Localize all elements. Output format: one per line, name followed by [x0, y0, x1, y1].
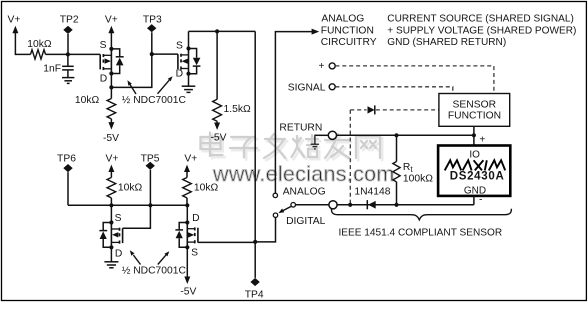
junction TP5 rail: [148, 203, 152, 207]
junction Rt bottom: [394, 203, 398, 207]
terminal circle signal: [329, 84, 335, 90]
terminal circle return: [328, 131, 336, 139]
wire Q1b drain to ground: [188, 74, 190, 86]
wire digital pole to TP4 node: [255, 217, 275, 242]
wire TP3 down: [151, 32, 153, 54]
brace IEEE sensor: [331, 209, 511, 220]
svg-text:V+: V+: [184, 154, 197, 165]
svg-text:+ SUPPLY VOLTAGE (SHARED POWER: + SUPPLY VOLTAGE (SHARED POWER): [387, 25, 576, 36]
box sensor function: [439, 94, 510, 127]
svg-text:1N4148: 1N4148: [354, 187, 390, 198]
watermark chinese characters: [201, 133, 381, 159]
svg-text:TP2: TP2: [60, 15, 79, 26]
svg-text:10kΩ: 10kΩ: [194, 182, 219, 193]
terminal analog pole: [273, 193, 277, 197]
wire row2 rail: [68, 204, 187, 206]
wire node A to Q1a gate: [68, 53, 100, 55]
svg-text:S: S: [100, 40, 107, 51]
ground return stub: [311, 135, 319, 149]
svg-text:10kΩ: 10kΩ: [75, 95, 100, 106]
svg-text:IO: IO: [469, 149, 480, 160]
switch SW1 lever: [278, 203, 295, 214]
svg-text:CIRCUITRY: CIRCUITRY: [321, 37, 377, 48]
junction R5 rail: [185, 203, 189, 207]
wire top rail: [189, 30, 256, 32]
svg-text:GND (SHARED RETURN): GND (SHARED RETURN): [387, 37, 506, 48]
svg-text:SENSOR: SENSOR: [453, 100, 497, 111]
V+ supply arrow Q1a: [108, 26, 114, 49]
svg-text:-5V: -5V: [103, 133, 119, 144]
svg-text:RETURN: RETURN: [279, 122, 322, 133]
terminal circle plus: [329, 63, 335, 69]
terminal digital pole: [273, 213, 277, 217]
wire node B to TP3 node: [111, 54, 151, 87]
svg-text:½ NDC7001C: ½ NDC7001C: [122, 95, 187, 106]
arrow to Q2a: [130, 250, 141, 264]
diode D2 1N4148: [367, 200, 375, 209]
test point TP6 diamond: [63, 164, 72, 172]
svg-text:S: S: [191, 247, 198, 258]
resistor R4 10k: [107, 178, 116, 206]
svg-text:FUNCTION: FUNCTION: [321, 25, 374, 36]
test point TP2 diamond: [63, 26, 72, 34]
svg-text:ANALOG: ANALOG: [321, 14, 364, 25]
svg-text:-5V: -5V: [210, 133, 226, 144]
wire return stub: [314, 134, 328, 136]
svg-text:+: +: [479, 135, 485, 146]
svg-text:CURRENT SOURCE (SHARED SIGNAL): CURRENT SOURCE (SHARED SIGNAL): [387, 14, 574, 25]
svg-text:-5V: -5V: [180, 286, 196, 297]
label sensor function: [448, 100, 501, 122]
svg-text:D: D: [100, 74, 107, 85]
wire rail to Q2b drain: [186, 205, 188, 222]
junction dashed meet: [348, 203, 352, 207]
node ANALOG FUNCTION CIRCUITRY text: [321, 14, 377, 48]
junction R3 top: [215, 29, 219, 33]
test point TP4 diamond: [250, 278, 259, 286]
junction TP4 node: [253, 240, 257, 244]
dashed wire diode branch vertical: [349, 110, 351, 205]
wire Q2a gate to TP5: [123, 205, 151, 228]
wire main bus to TP4: [254, 31, 256, 278]
dashed wire signal to sensor function: [335, 87, 452, 93]
diode D1 on dashed line: [368, 105, 375, 114]
svg-text:-: -: [479, 194, 483, 206]
svg-text:TP3: TP3: [143, 15, 162, 26]
wire Q2a drain to ground: [110, 247, 112, 261]
V+ supply arrow R5: [184, 165, 190, 178]
test point TP5 diamond: [146, 162, 155, 170]
wire TP6 to rail: [67, 172, 69, 205]
junction node B: [109, 85, 113, 89]
ground below Q1b: [182, 86, 196, 92]
svg-text:SIGNAL: SIGNAL: [288, 82, 326, 93]
svg-text:S: S: [176, 40, 183, 51]
arrow to Q2b: [158, 251, 170, 264]
ground below C1: [62, 78, 74, 84]
wire lever to common: [296, 204, 329, 206]
svg-text:1.5kΩ: 1.5kΩ: [224, 104, 251, 115]
svg-text:IEEE 1451.4 COMPLIANT SENSOR: IEEE 1451.4 COMPLIANT SENSOR: [338, 228, 502, 239]
wire rail to Q2a source: [110, 205, 112, 222]
wire Q1a drain to node B: [110, 74, 112, 88]
dashed wire plus to sensor function: [335, 66, 494, 93]
svg-text:V+: V+: [8, 15, 21, 26]
logo MAXIM: [445, 160, 506, 170]
svg-text:10kΩ: 10kΩ: [118, 182, 143, 193]
svg-text:DIGITAL: DIGITAL: [286, 216, 326, 227]
svg-text:ANALOG: ANALOG: [283, 187, 326, 198]
svg-text:10kΩ: 10kΩ: [27, 39, 52, 50]
svg-text:D: D: [115, 248, 122, 259]
resistor R2 10k: [107, 87, 116, 122]
-5V arrow R3: [214, 121, 220, 130]
svg-text:100kΩ: 100kΩ: [403, 173, 433, 184]
V+ supply arrow R4: [108, 165, 114, 178]
svg-text:1nF: 1nF: [43, 63, 61, 74]
svg-text:TP6: TP6: [57, 154, 76, 165]
wire Q2b source to -5V: [184, 247, 190, 284]
transistor Q1b n-channel half NDC7001C: [176, 40, 201, 79]
dashed wire diode branch horizontal: [350, 109, 439, 111]
resistor R5 10k: [183, 178, 192, 206]
watermark shadow: [203, 135, 383, 161]
svg-text:½ NDC7001C: ½ NDC7001C: [122, 266, 187, 277]
wire R1 to node A: [46, 53, 68, 55]
ground below Q2a: [104, 262, 118, 268]
svg-text:TP4: TP4: [245, 290, 264, 301]
capacitor C1 1nF: [62, 54, 74, 77]
svg-text:D: D: [176, 69, 183, 80]
wire return line: [337, 134, 474, 136]
junction Rt top: [394, 133, 398, 137]
wire TP2 down: [67, 34, 69, 54]
resistor R3 1.5k: [213, 99, 222, 121]
legend text right: [387, 14, 576, 48]
wire V+ to R1: [15, 53, 31, 55]
junction TP3 node: [150, 52, 154, 56]
junction R4 rail: [109, 203, 113, 207]
transistor Q2b n-channel half NDC7001C: [175, 213, 199, 258]
resistor Rt 100k: [393, 135, 400, 205]
wire sensor function to IO: [473, 126, 475, 145]
svg-text:V+: V+: [106, 154, 119, 165]
arrow to Q1a: [127, 80, 136, 94]
wire TP3 node to Q1b gate: [152, 53, 178, 55]
arrow to Q1b: [158, 76, 173, 94]
terminal switch common: [329, 201, 337, 209]
svg-text:S: S: [115, 213, 122, 224]
wire Q1b source riser: [188, 31, 190, 48]
resistor R1 10k: [31, 50, 46, 59]
-5V arrow R2: [108, 122, 114, 130]
V+ supply arrow: [12, 26, 18, 55]
svg-text:+: +: [318, 61, 324, 72]
wire digital line: [337, 204, 474, 206]
transistor Q1a p-channel half NDC7001C: [100, 40, 124, 84]
svg-text:DS2430A: DS2430A: [450, 171, 505, 183]
svg-text:V+: V+: [105, 15, 118, 26]
junction IO node: [472, 133, 476, 137]
wire TP5 to rail: [149, 170, 151, 205]
junction node A: [66, 52, 70, 56]
wire GND lead: [473, 196, 475, 205]
wire analog branch with arrow: [275, 29, 319, 194]
svg-text:www.elecians.com: www.elecians.com: [212, 162, 395, 186]
svg-text:D: D: [192, 213, 199, 224]
IC U1 DS2430A box: [438, 146, 510, 196]
svg-text:GND: GND: [464, 185, 486, 196]
test point TP3 diamond: [147, 24, 156, 32]
wire Q2b gate to TP4 node: [198, 241, 255, 243]
transistor Q2a p-channel half NDC7001C: [99, 213, 122, 259]
wire R3 lead: [216, 31, 218, 99]
svg-text:FUNCTION: FUNCTION: [448, 111, 501, 122]
